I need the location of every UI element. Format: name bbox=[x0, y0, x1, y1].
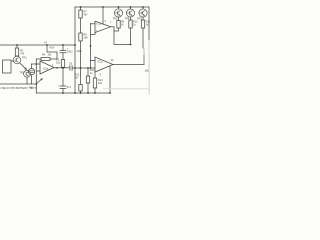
transistor TR4 bbox=[126, 9, 134, 17]
svg-text:100n: 100n bbox=[77, 50, 83, 53]
svg-text:IC1b: IC1b bbox=[97, 22, 103, 25]
node 95,93 bbox=[94, 92, 96, 94]
node 36.3,64 bbox=[36, 63, 38, 65]
svg-text:10u: 10u bbox=[56, 62, 61, 65]
transistor TR3 bbox=[114, 9, 122, 17]
arrow annotation bbox=[37, 79, 42, 83]
node 118.5,7 bbox=[118, 6, 120, 8]
svg-text:(a): (a) bbox=[30, 86, 33, 89]
node 90.5,46 bbox=[90, 45, 92, 47]
capacitor C7 bbox=[60, 86, 66, 88]
wire left vertical bus x75 bbox=[74, 7, 76, 93]
svg-text:IC1c: IC1c bbox=[98, 61, 104, 64]
wire left ground line y84 bbox=[0, 83, 37, 85]
node 75,45 bbox=[74, 44, 76, 46]
wire right edge drop bbox=[148, 7, 150, 40]
capacitor C6 bbox=[70, 66, 72, 71]
svg-text:R14: R14 bbox=[98, 79, 103, 82]
microphone box bbox=[3, 60, 12, 73]
emitter arrow TR1-TR2 bbox=[20, 63, 27, 69]
resistor R11 bbox=[87, 68, 89, 76]
wire output op2 riser bbox=[143, 55, 145, 65]
svg-text:100u: 100u bbox=[67, 51, 73, 54]
node 103,7 bbox=[102, 6, 104, 8]
svg-text:TR2: TR2 bbox=[20, 72, 25, 75]
node 63,68 bbox=[62, 67, 64, 69]
node 130.5,44.5 bbox=[130, 44, 132, 46]
wire x80.5 lower bbox=[80, 68, 82, 74]
wire top supply rail bbox=[75, 6, 149, 8]
wire mid rail y45 bbox=[0, 44, 75, 46]
node 88,68 bbox=[87, 67, 89, 69]
wire signal y68 bbox=[54, 67, 69, 69]
wire output op1 bbox=[111, 27, 131, 45]
node 80.5,68 bbox=[80, 67, 82, 69]
node 75,68 bbox=[74, 67, 76, 69]
faint scan artifacts bbox=[103, 55, 150, 95]
wire x36.5 drop bbox=[35, 59, 37, 93]
node 57,67.8 bbox=[56, 67, 58, 69]
svg-text:TR5: TR5 bbox=[137, 18, 142, 21]
transistor TR5 bbox=[139, 9, 147, 17]
wire IC1b power pin4 bbox=[102, 7, 104, 24]
node 80.5,93 bbox=[80, 92, 82, 94]
svg-text:4k7: 4k7 bbox=[84, 14, 89, 17]
svg-text:IC1a: IC1a bbox=[43, 68, 49, 71]
labels bbox=[1, 11, 151, 91]
node 90.5,68 bbox=[90, 67, 92, 69]
node 143,7 bbox=[142, 6, 144, 8]
wire x110 drop bbox=[109, 66, 111, 93]
op-amp IC1a bbox=[40, 61, 54, 74]
svg-text:4n7: 4n7 bbox=[67, 86, 72, 89]
node 80.5,7 bbox=[80, 6, 82, 8]
resistor R9 bbox=[142, 17, 144, 20]
resistor R8 bbox=[79, 33, 82, 41]
svg-text:R11: R11 bbox=[146, 21, 150, 24]
wire output op2 bbox=[113, 64, 144, 66]
bias tap 4.5V bbox=[47, 45, 57, 59]
svg-text:TR4: TR4 bbox=[125, 18, 130, 21]
feedback resistor R4 bbox=[36, 58, 41, 60]
svg-text:TR3: TR3 bbox=[113, 18, 118, 21]
svg-text:TR1: TR1 bbox=[22, 57, 27, 60]
junction dots bbox=[16, 6, 144, 94]
node 75,93 bbox=[74, 92, 76, 94]
transistor TR1 bbox=[13, 56, 21, 64]
node 110,93 bbox=[109, 92, 111, 94]
node 88,93 bbox=[87, 92, 89, 94]
node 47,45 bbox=[46, 44, 48, 46]
resistor R1 bbox=[16, 45, 18, 48]
resistor R7 bbox=[80, 7, 82, 10]
svg-text:(+): (+) bbox=[44, 41, 47, 44]
svg-text:4k7: 4k7 bbox=[75, 77, 80, 80]
resistor R10 bbox=[79, 85, 82, 92]
svg-text:R10: R10 bbox=[75, 74, 80, 77]
capacitor C5 chain x63 bbox=[62, 45, 64, 50]
wire mic column x31.5 bbox=[31, 64, 33, 68]
node 17,45 bbox=[16, 44, 18, 46]
svg-text:1M: 1M bbox=[48, 53, 51, 56]
node 63,45 bbox=[62, 44, 64, 46]
svg-text:1k8: 1k8 bbox=[84, 37, 89, 40]
node 130.5,7 bbox=[130, 6, 132, 8]
resistor R6 bbox=[130, 17, 132, 20]
svg-text:4.5V: 4.5V bbox=[49, 46, 54, 49]
op-amp IC1b bbox=[95, 21, 111, 32]
op-amp IC1c bbox=[95, 57, 113, 72]
microphone MIC1 bbox=[28, 68, 34, 74]
resistor R13 bbox=[94, 72, 96, 78]
resistor R5 bbox=[118, 17, 120, 20]
transistor TR2 bbox=[24, 70, 31, 77]
wire bottom rail bbox=[36, 92, 110, 94]
node 63,93 bbox=[62, 92, 64, 94]
svg-text:R10: R10 bbox=[133, 21, 138, 24]
wire bias line x90.5 bbox=[90, 24, 92, 69]
svg-text:R12: R12 bbox=[90, 69, 95, 72]
node 36.3,84 bbox=[35, 83, 37, 85]
